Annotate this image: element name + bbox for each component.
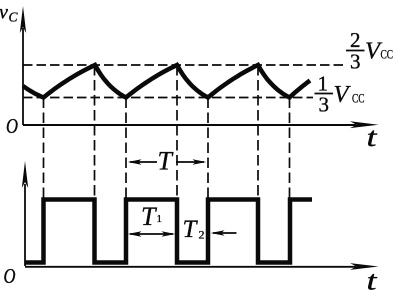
dashed level line 2/3 Vcc <box>23 64 343 66</box>
dashed drop line at peak t2 <box>94 65 96 198</box>
svg-text:O: O <box>6 114 18 138</box>
dashed level line 1/3 Vcc <box>23 97 313 99</box>
top t-axis arrowhead <box>350 121 379 128</box>
svg-text:O: O <box>4 264 16 288</box>
svg-text:2: 2 <box>350 28 361 52</box>
period T dimension arrow, right half <box>176 159 206 164</box>
svg-text:T: T <box>183 216 199 243</box>
T2 arrow (pointing left toward pulse edge) <box>211 230 237 235</box>
svg-text:1: 1 <box>157 213 163 225</box>
svg-text:v: v <box>0 2 8 24</box>
dashed drop line at peak t6 <box>257 65 259 198</box>
svg-text:CC: CC <box>381 47 393 62</box>
svg-text:3: 3 <box>319 93 330 117</box>
label 1/3 Vcc <box>315 72 365 117</box>
label 2/3 Vcc <box>346 28 393 74</box>
bottom t-axis <box>25 266 356 268</box>
top y-axis <box>22 28 24 125</box>
svg-text:C: C <box>9 10 19 25</box>
bottom y-axis <box>24 184 26 266</box>
T1 dimension arrow (double headed) <box>128 231 176 236</box>
bottom t-axis arrowhead <box>350 263 379 270</box>
svg-text:CC: CC <box>352 91 365 106</box>
top t-axis <box>23 124 356 126</box>
dashed drop line at trough t3 <box>125 98 127 199</box>
capacitor voltage waveform vC <box>23 65 310 98</box>
dashed drop line at trough t1 <box>43 98 45 199</box>
svg-text:T: T <box>158 147 174 176</box>
svg-text:3: 3 <box>350 50 361 74</box>
svg-text:2: 2 <box>199 228 205 242</box>
period T dimension arrow, left half <box>128 159 157 164</box>
output square wave <box>25 200 312 263</box>
dashed drop line at trough t5 <box>207 98 209 199</box>
dashed drop line at peak t4 <box>176 65 178 198</box>
dashed drop line at trough t7 <box>289 98 291 199</box>
bottom y-axis arrowhead <box>22 161 28 188</box>
top y-axis arrowhead <box>20 6 26 33</box>
svg-text:T: T <box>141 202 157 231</box>
